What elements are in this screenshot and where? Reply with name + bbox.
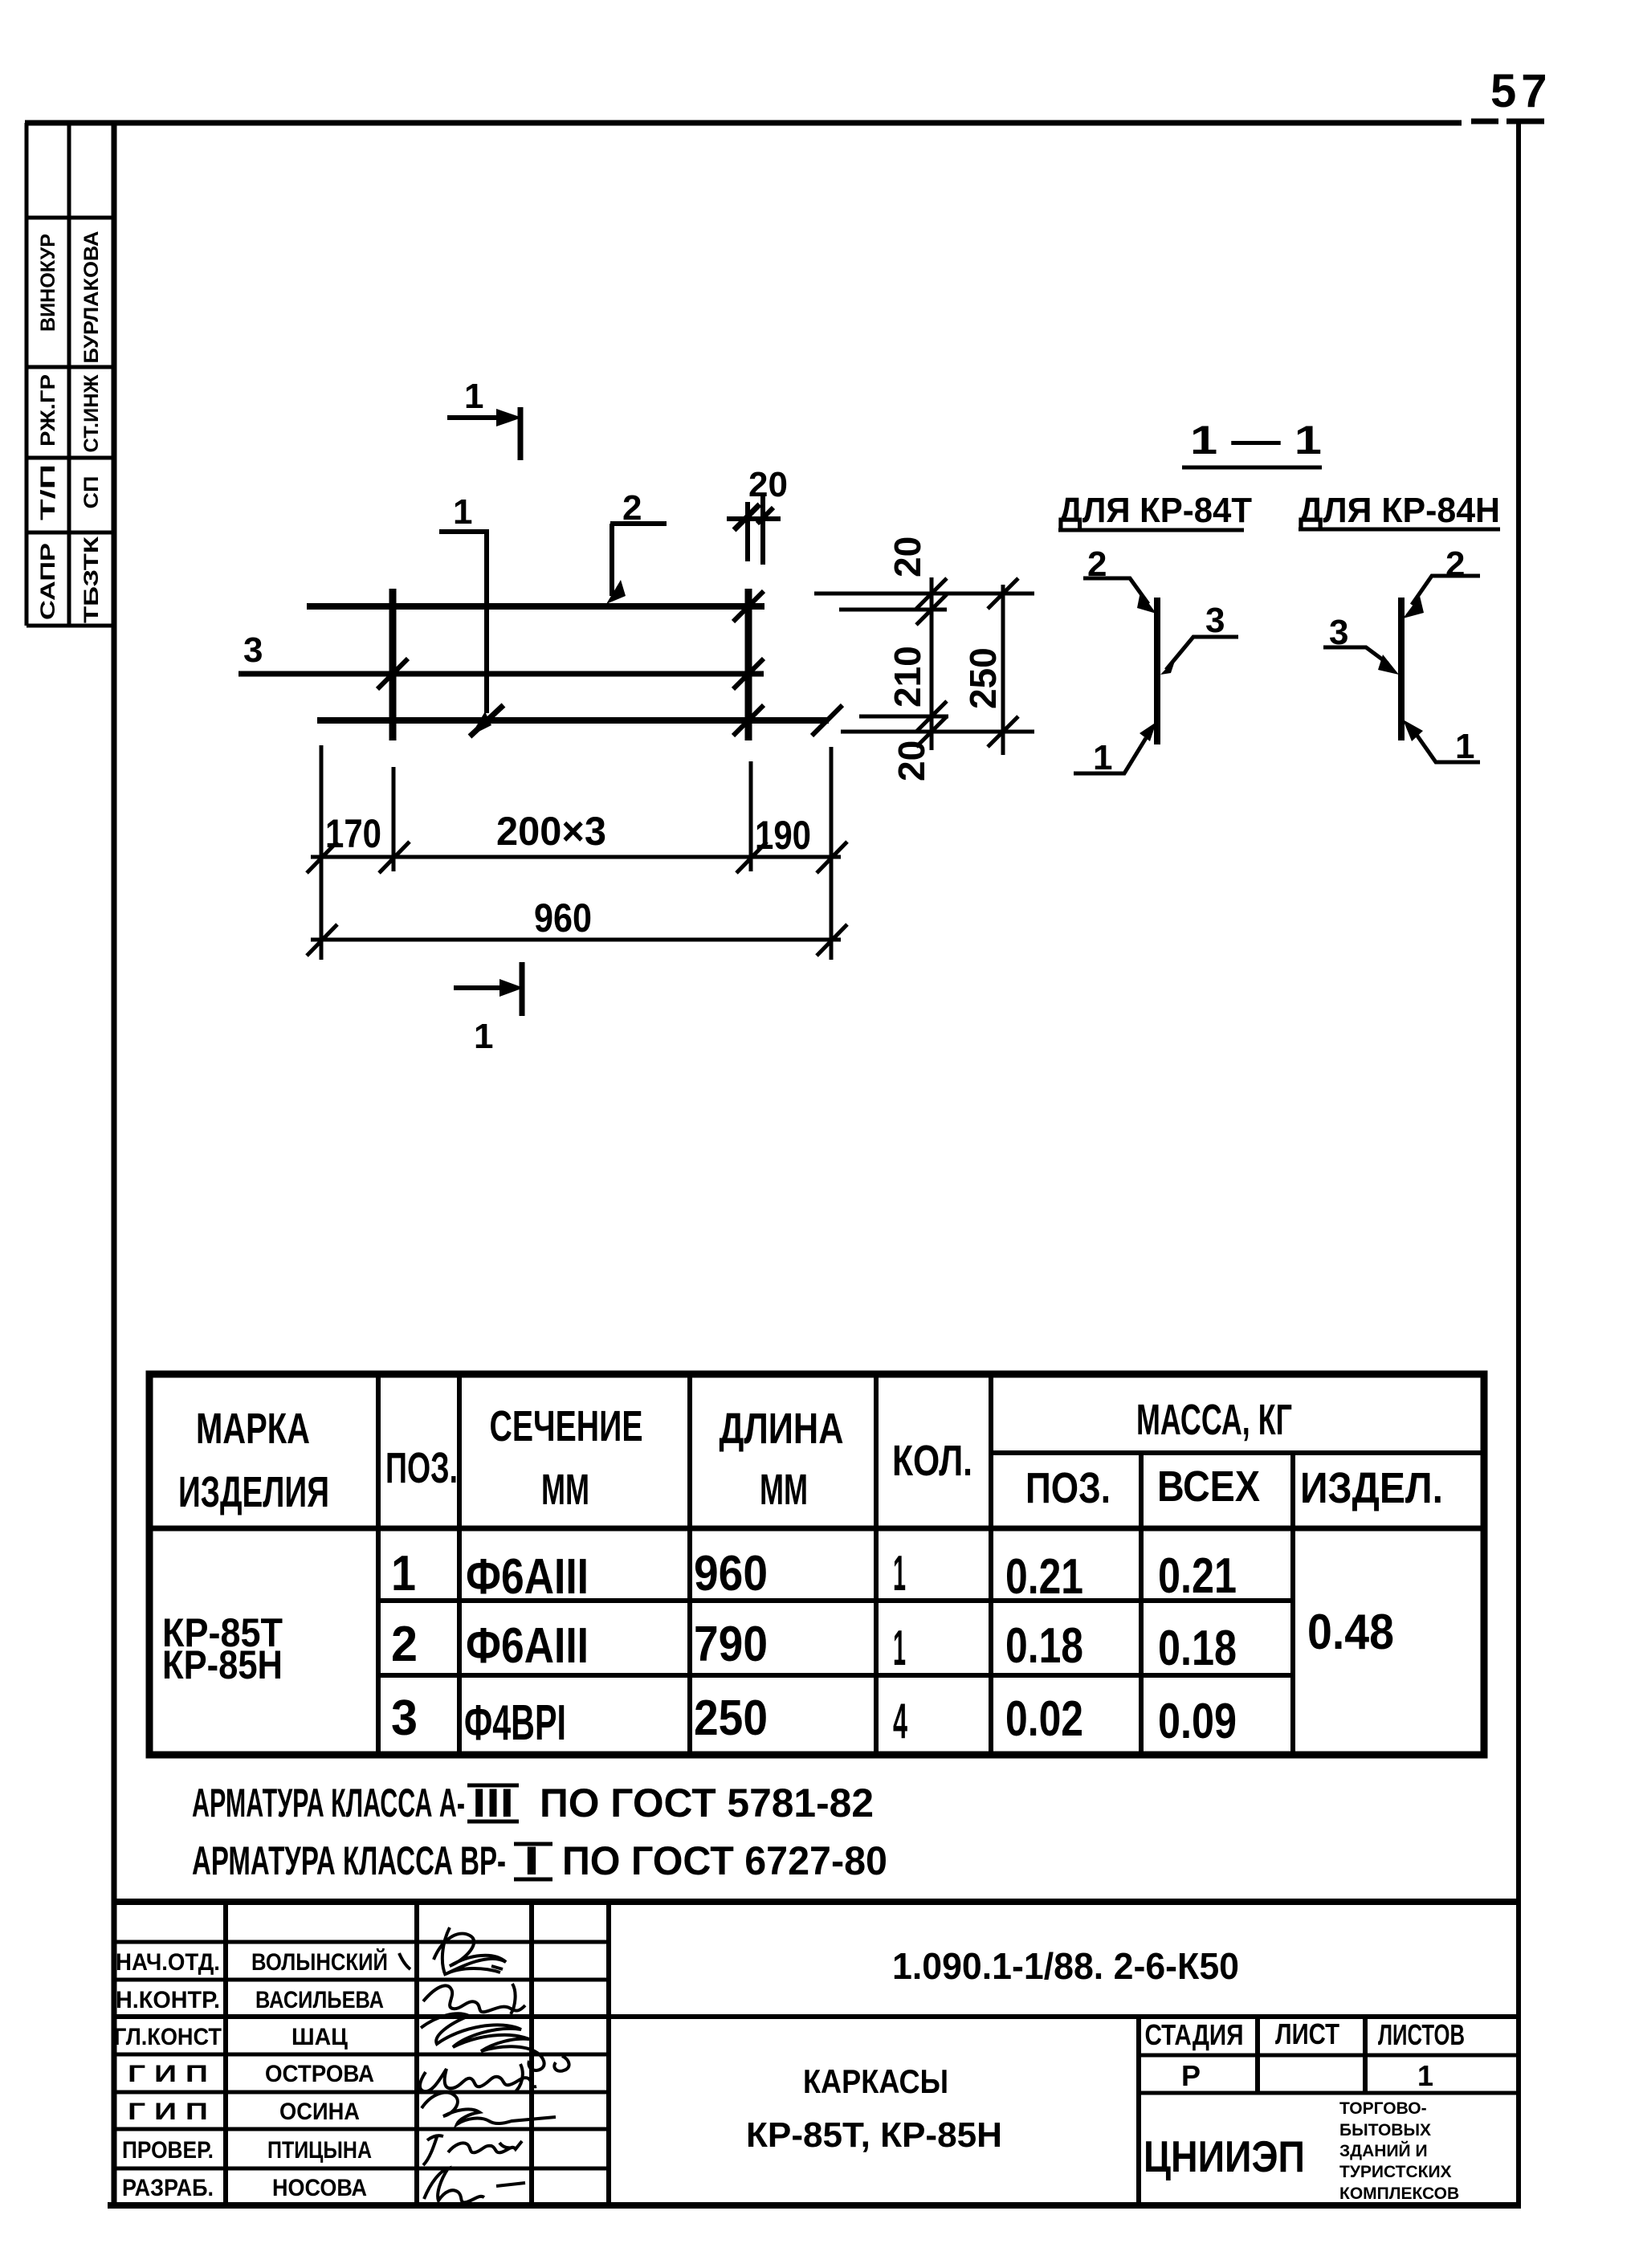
svg-text:ПО ГОСТ 5781-82: ПО ГОСТ 5781-82 (540, 1781, 874, 1825)
svg-text:НАЧ.ОТД.: НАЧ.ОТД. (116, 1949, 220, 1976)
svg-text:ДЛИНА: ДЛИНА (720, 1405, 844, 1453)
signature Shats (421, 2013, 569, 2071)
svg-text:ЗДАНИЙ И: ЗДАНИЙ И (1339, 2141, 1428, 2160)
dim line 960 (307, 924, 847, 956)
svg-text:1: 1 (893, 1621, 906, 1676)
svg-text:ПОЗ.: ПОЗ. (1025, 1464, 1111, 1512)
svg-text:Р: Р (1181, 2059, 1201, 2092)
TITLEBLOCK (112, 1902, 1519, 2205)
NOTES (192, 1781, 887, 1883)
svg-text:ТУРИСТСКИХ: ТУРИСТСКИХ (1339, 2163, 1452, 2181)
signature Vasilieva (423, 1984, 525, 2014)
svg-text:СТ.ИНЖ: СТ.ИНЖ (80, 374, 103, 452)
svg-text:1.090.1-1/88. 2-6-К50: 1.090.1-1/88. 2-6-К50 (892, 1945, 1239, 1987)
svg-text:КАРКАСЫ: КАРКАСЫ (803, 2062, 948, 2100)
svg-text:СЕЧЕНИЕ: СЕЧЕНИЕ (490, 1402, 643, 1450)
svg-text:1: 1 (391, 1546, 416, 1601)
svg-text:ПТИЦЫНА: ПТИЦЫНА (267, 2137, 372, 2164)
right section bar (1398, 598, 1405, 740)
svg-text:СП: СП (80, 476, 103, 509)
svg-text:250: 250 (962, 647, 1004, 709)
svg-text:ВИНОКУР: ВИНОКУР (37, 234, 59, 332)
svg-text:ВАСИЛЬЕВА: ВАСИЛЬЕВА (255, 1987, 384, 2013)
svg-text:НОСОВА: НОСОВА (272, 2175, 367, 2201)
svg-text:0.21: 0.21 (1005, 1549, 1083, 1605)
svg-text:БУРЛАКОВА: БУРЛАКОВА (80, 231, 103, 364)
svg-text:КР-85Т, КР-85Н: КР-85Т, КР-85Н (746, 2115, 1002, 2155)
section marker 1 (bottom) (454, 962, 524, 1016)
signature Nosova (424, 2168, 525, 2202)
svg-text:210: 210 (887, 646, 928, 708)
svg-text:ШАЦ: ШАЦ (292, 2024, 348, 2050)
svg-text:1: 1 (474, 1017, 493, 1056)
svg-text:ПОЗ.: ПОЗ. (385, 1444, 458, 1492)
svg-text:ЛИСТОВ: ЛИСТОВ (1378, 2018, 1465, 2051)
left section bar (1154, 598, 1160, 744)
svg-text:4: 4 (893, 1694, 907, 1749)
svg-text:1 — 1: 1 — 1 (1190, 418, 1322, 463)
right side vertical dims (814, 577, 1034, 755)
dim line 170/200x3/190 (307, 842, 847, 873)
signature Osina (422, 2092, 556, 2124)
svg-text:960: 960 (694, 1546, 768, 1601)
svg-text:ИЗДЕЛИЯ: ИЗДЕЛИЯ (178, 1468, 329, 1516)
svg-text:0.18: 0.18 (1005, 1618, 1083, 1674)
svg-text:57: 57 (1490, 65, 1552, 117)
signature Ostrova (420, 2064, 536, 2093)
signatures (399, 1927, 569, 2202)
svg-text:ГЛ.КОНСТ: ГЛ.КОНСТ (114, 2024, 222, 2050)
svg-text:960: 960 (534, 895, 592, 940)
svg-text:ЛИСТ: ЛИСТ (1275, 2017, 1339, 2050)
svg-text:Г И П: Г И П (128, 2099, 208, 2125)
horizontal dimension extension lines (321, 745, 831, 960)
svg-text:0.21: 0.21 (1158, 1548, 1237, 1604)
svg-text:2: 2 (1445, 545, 1465, 584)
rebar pos1 bottom bar (317, 717, 829, 724)
svg-text:0.48: 0.48 (1307, 1605, 1394, 1660)
svg-text:1: 1 (1417, 2059, 1433, 2092)
bottom border (108, 2202, 1521, 2209)
svg-text:МАССА, КГ: МАССА, КГ (1136, 1396, 1292, 1444)
top border (25, 120, 1462, 126)
svg-text:200×3: 200×3 (496, 809, 606, 854)
svg-text:0.09: 0.09 (1158, 1694, 1237, 1749)
svg-text:КР-85Н: КР-85Н (162, 1642, 283, 1687)
svg-text:ОСИНА: ОСИНА (279, 2099, 360, 2125)
svg-text:ВСЕХ: ВСЕХ (1157, 1462, 1260, 1511)
SECTIONS 1-1 (1058, 418, 1500, 777)
svg-text:ВОЛЫНСКИЙ: ВОЛЫНСКИЙ (251, 1948, 388, 1976)
svg-text:Н.КОНТР.: Н.КОНТР. (116, 1987, 220, 2013)
svg-text:790: 790 (694, 1617, 768, 1672)
svg-text:РЖ.ГР: РЖ.ГР (37, 374, 59, 447)
svg-text:ТБЗТК: ТБЗТК (80, 536, 103, 623)
svg-text:СТАДИЯ: СТАДИЯ (1145, 2018, 1244, 2051)
svg-text:РАЗРАБ.: РАЗРАБ. (122, 2175, 214, 2201)
cross bar left (389, 589, 397, 740)
svg-text:САПР: САПР (37, 543, 59, 620)
signature Ptitsyna (423, 2135, 522, 2165)
cross bar right (745, 589, 752, 740)
svg-text:3: 3 (243, 630, 263, 670)
svg-text:20: 20 (748, 465, 788, 504)
svg-text:Ф6АIII: Ф6АIII (466, 1618, 589, 1674)
svg-text:МАРКА: МАРКА (196, 1405, 310, 1453)
svg-text:ММ: ММ (541, 1466, 589, 1514)
svg-text:Г И П: Г И П (128, 2061, 208, 2087)
svg-text:ПРОВЕР.: ПРОВЕР. (122, 2137, 214, 2164)
signature Volynskiy (399, 1927, 506, 1976)
svg-text:1: 1 (453, 492, 472, 532)
svg-text:1: 1 (893, 1546, 906, 1601)
svg-text:3: 3 (391, 1691, 418, 1746)
svg-text:ЦНИИЭП: ЦНИИЭП (1144, 2131, 1305, 2181)
svg-text:АРМАТУРА КЛАССА ВР-: АРМАТУРА КЛАССА ВР- (192, 1838, 506, 1883)
svg-text:ТОРГОВО-: ТОРГОВО- (1339, 2099, 1427, 2118)
svg-text:АРМАТУРА КЛАССА А-: АРМАТУРА КЛАССА А- (192, 1781, 465, 1825)
rebar pos3 middle bar (239, 671, 764, 677)
svg-text:Ф6АIII: Ф6АIII (466, 1549, 589, 1605)
left frame border (112, 123, 117, 2208)
svg-text:ИЗДЕЛ.: ИЗДЕЛ. (1300, 1464, 1443, 1512)
svg-text:0.02: 0.02 (1005, 1691, 1083, 1747)
svg-text:Т/П: Т/П (37, 464, 59, 520)
svg-text:ДЛЯ КР-84Т: ДЛЯ КР-84Т (1058, 491, 1252, 530)
svg-text:ДЛЯ КР-84Н: ДЛЯ КР-84Н (1299, 491, 1500, 530)
svg-text:170: 170 (325, 811, 381, 856)
svg-text:1: 1 (464, 377, 483, 416)
svg-text:2: 2 (391, 1617, 418, 1672)
svg-text:ПО ГОСТ 6727-80: ПО ГОСТ 6727-80 (562, 1838, 887, 1883)
svg-text:ОСТРОВА: ОСТРОВА (265, 2061, 374, 2087)
svg-text:Ф4ВРI: Ф4ВРI (464, 1695, 566, 1751)
SIDEBAR (27, 123, 116, 626)
slash ticks at bar crossings (377, 659, 408, 689)
TABLE (149, 1374, 1484, 1755)
svg-text:БЫТОВЫХ: БЫТОВЫХ (1339, 2121, 1431, 2140)
section marker 1 (top) (447, 407, 522, 460)
svg-text:190: 190 (755, 813, 811, 858)
svg-text:20: 20 (891, 740, 932, 781)
right frame border (1516, 120, 1521, 2208)
svg-text:250: 250 (694, 1691, 768, 1746)
svg-text:ММ: ММ (760, 1466, 808, 1514)
svg-text:КОМПЛЕКСОВ: КОМПЛЕКСОВ (1339, 2184, 1459, 2203)
PLAN VIEW (239, 377, 1034, 1056)
svg-text:КОЛ.: КОЛ. (892, 1437, 972, 1485)
svg-text:20: 20 (887, 536, 928, 577)
svg-text:0.18: 0.18 (1158, 1621, 1237, 1676)
svg-text:3: 3 (1205, 601, 1225, 640)
rebar pos2 top bar (307, 603, 764, 610)
